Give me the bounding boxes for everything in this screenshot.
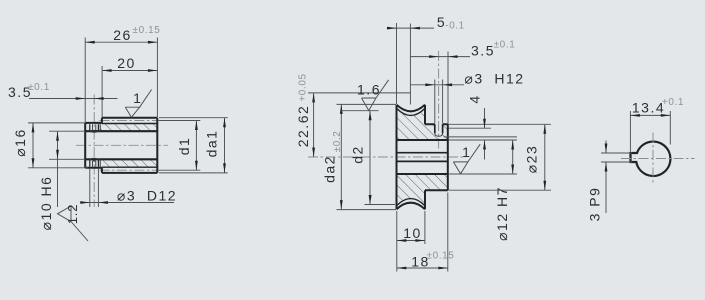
svg-text:⌀23: ⌀23 [524,145,540,174]
svg-text:+0.05: +0.05 [298,73,309,101]
root arc bottom G2 [397,199,426,206]
hole centerline G2 [438,51,440,150]
dimension 22.62 +0.05 [308,92,410,94]
dimension 18 ±0.15 [396,244,398,272]
axis centerline G1 [76,144,168,146]
svg-text:±0.1: ±0.1 [28,82,50,93]
hatch lower region G2 [397,174,448,206]
dimension 26 ±0.15 [84,38,86,123]
svg-text:±0.2: ±0.2 [332,131,343,153]
pitch line d1 bottom [99,169,159,171]
dimension 4 [449,123,552,125]
svg-text:-0.1: -0.1 [445,21,465,32]
bore lines G2 [397,140,448,174]
svg-text:26: 26 [113,27,132,43]
svg-text:⌀3 H12: ⌀3 H12 [464,70,524,86]
svg-text:1: 1 [462,144,471,160]
dimension diameter 16 [28,122,85,124]
svg-text:da2: da2 [322,155,338,183]
svg-text:±0.15: ±0.15 [133,25,161,36]
mid-plane extension line G2 [409,24,411,105]
svg-text:13.4: 13.4 [632,99,665,115]
dimension diameter 10 H6 [49,130,85,132]
bore circle with keyway [631,142,671,176]
svg-text:⌀12 H7: ⌀12 H7 [494,186,510,241]
pin hole bottom extension line [444,136,518,138]
dimension da2 ±0.2 [337,103,397,105]
dimension 3.5 +0.1 G2 [447,52,449,125]
dimension d2 [365,204,396,206]
web boundary lines G1 [99,124,101,168]
svg-text:3.5: 3.5 [471,42,495,58]
svg-text:1.6: 1.6 [357,81,381,97]
svg-text:3 P9: 3 P9 [587,187,603,222]
dimension diameter 3 D12 [89,169,91,207]
dimension 5 -0.1 [396,23,398,104]
pin hole centerline G1 [93,95,95,208]
bore line bottom G1 [85,158,157,160]
dimension d1 [159,120,200,122]
pin hole G2 [435,124,443,133]
axis centerline G2 [308,156,466,158]
hub top auxiliary line [449,127,492,129]
svg-text:d1: d1 [176,137,192,156]
root line bottom G1 [102,166,157,168]
dimension diameter 12 H7 [449,139,518,141]
svg-text:4: 4 [467,94,483,103]
svg-text:±0.1: ±0.1 [494,40,516,51]
svg-text:⌀10 H6: ⌀10 H6 [38,176,54,231]
keyway side lines G2 [397,153,448,162]
dimension 10 [396,211,398,244]
svg-text:d2: d2 [350,145,366,164]
dimension 20 [101,66,103,117]
hatch top band G1 [100,124,157,132]
svg-text:⌀16: ⌀16 [12,128,28,157]
dimension 13.4 +0.1 [629,111,631,152]
dimension key 3 P9 [601,152,632,154]
throat extension line [340,110,379,112]
dimension 3.5 ±0.1 [29,98,118,100]
bore line top G1 [85,130,157,132]
hatch bottom band G1 [100,159,157,167]
svg-text:1: 1 [133,90,142,106]
root arc top G2 [397,108,426,115]
svg-text:⌀3 D12: ⌀3 D12 [117,187,177,203]
svg-text:22.62: 22.62 [295,105,311,148]
ring groove bottom G1 [93,161,96,167]
dimension diameter 23 [449,189,552,191]
worm wheel G2 outline [397,105,448,210]
hatch upper region G2 [397,108,448,140]
root line top G1 [102,123,157,125]
dimension diameter 3 H12 [434,80,436,124]
pin hole slot top G1 [90,124,99,131]
pin hole slot bottom G1 [90,159,99,167]
dimension da1 [159,117,228,119]
svg-text:10: 10 [403,225,422,241]
pitch line d1 top [99,120,159,122]
svg-text:da1: da1 [204,130,220,158]
groove width callout 1.2 [58,206,89,241]
svg-text:±0.15: ±0.15 [427,251,455,262]
svg-text:20: 20 [117,55,136,71]
ring groove top G1 [93,124,96,130]
gear G1 outline [85,118,157,173]
horizontal centerline bore [621,158,695,160]
svg-text:1.2: 1.2 [65,204,80,224]
vertical centerline bore [652,133,654,185]
svg-text:+0.1: +0.1 [662,97,684,108]
